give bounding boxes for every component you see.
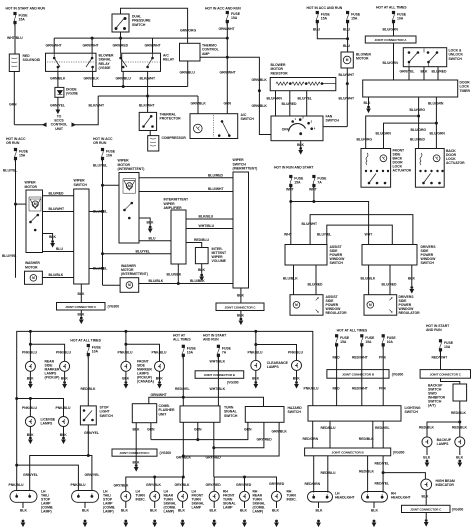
svg-text:RED/YEL: RED/YEL bbox=[375, 482, 390, 486]
A/C relay bbox=[122, 53, 161, 71]
wire BLU/GRN timer pin bbox=[435, 97, 437, 149]
svg-text:BLK: BLK bbox=[456, 456, 463, 460]
svg-text:RED/GRN: RED/GRN bbox=[305, 482, 321, 486]
wire BLK lock switch pin bbox=[423, 67, 425, 80]
svg-text:BLU/WHT: BLU/WHT bbox=[339, 73, 355, 77]
svg-text:WHT/BLK: WHT/BLK bbox=[210, 360, 226, 364]
RH headlight bbox=[362, 492, 388, 503]
svg-text:HOT AT ALL TIMES: HOT AT ALL TIMES bbox=[337, 328, 368, 332]
license lamp left bbox=[25, 417, 35, 427]
backup lamp right bbox=[455, 437, 465, 447]
wire RED/BLK stop feed bbox=[87, 355, 89, 406]
joint connector C (wiper) bbox=[57, 303, 106, 311]
wire WHT/BLK turn feed bbox=[217, 355, 219, 406]
svg-text:BLU/ORG: BLU/ORG bbox=[411, 128, 427, 132]
fuse 7A (window 2) bbox=[313, 175, 315, 177]
svg-text:MOTOR: MOTOR bbox=[25, 185, 38, 189]
svg-text:BLK: BLK bbox=[316, 509, 323, 513]
svg-text:PNK/BLU: PNK/BLU bbox=[56, 406, 71, 410]
svg-text:JOINT CONNECTOR C: JOINT CONNECTOR C bbox=[430, 373, 462, 377]
wire PNK/BLU to tail lamps bbox=[17, 465, 79, 490]
wire BLU/BLK washer int to int switch bbox=[139, 283, 233, 285]
wire RED/YEL to RH headlight and high beam bbox=[382, 456, 384, 493]
svg-text:LOCK &UNLOCKSWITCH: LOCK &UNLOCKSWITCH bbox=[449, 49, 464, 61]
wire dual pressure bottom pin bbox=[120, 32, 122, 38]
wire GRN/BLU A/C relay pin bbox=[122, 71, 124, 86]
joint connector B (turn) bbox=[195, 371, 244, 379]
wire GRN/BLU thermo amp pin bbox=[187, 61, 189, 87]
wire BLU/YEL wiper feed bbox=[15, 159, 17, 278]
svg-text:RED/BLK: RED/BLK bbox=[419, 426, 434, 430]
svg-text:BLU/GRN: BLU/GRN bbox=[376, 132, 392, 136]
wire GRN/BLK hazard link bbox=[183, 422, 279, 456]
wire GRN/WHT drop 2 bbox=[91, 38, 93, 53]
svg-text:GRN/WHT: GRN/WHT bbox=[151, 393, 168, 397]
wire GRY/RED lamp bus right bbox=[214, 477, 276, 491]
svg-text:(VG300: (VG300 bbox=[452, 508, 464, 512]
svg-text:BLU/BLK: BLU/BLK bbox=[283, 277, 298, 281]
svg-text:PNK/BLU: PNK/BLU bbox=[71, 483, 86, 487]
wire BLK LH front turn ground bbox=[182, 501, 184, 508]
turn signal switch bbox=[180, 406, 220, 422]
wire GRN/BLK branch right bbox=[227, 57, 271, 134]
svg-text:GRN: GRN bbox=[9, 103, 17, 107]
wire WHT fuse2 down to bus bbox=[313, 186, 315, 202]
front side back door lock actuator bbox=[361, 149, 391, 188]
wire BLU/WHT crossover bbox=[310, 215, 413, 245]
svg-text:SWITCH: SWITCH bbox=[74, 183, 88, 187]
wire RED/GRN lighting out 1 bbox=[312, 421, 314, 448]
svg-text:WIPER: WIPER bbox=[74, 179, 86, 183]
svg-text:GRN/YEL: GRN/YEL bbox=[84, 431, 99, 435]
wire RED/WHT fuse b down bbox=[361, 345, 363, 406]
svg-text:HOT IN RUN AND START: HOT IN RUN AND START bbox=[274, 166, 314, 170]
svg-text:M: M bbox=[34, 202, 37, 206]
wiper switch bbox=[74, 189, 89, 284]
svg-text:BLK: BLK bbox=[60, 433, 67, 437]
front side marker lamp right bbox=[155, 361, 165, 371]
svg-text:WHT/BLK: WHT/BLK bbox=[210, 387, 226, 391]
svg-text:BLK: BLK bbox=[252, 377, 259, 381]
svg-text:BLK: BLK bbox=[122, 377, 129, 381]
RH rear turn signal lamp bbox=[240, 491, 250, 501]
wire BLU int motor to amplifier bbox=[139, 240, 171, 242]
svg-text:GRN/WHT: GRN/WHT bbox=[219, 27, 236, 31]
svg-text:DOORLOCKTIMER: DOORLOCKTIMER bbox=[460, 81, 471, 93]
wire GRN/WHT drop 1 bbox=[53, 38, 55, 53]
svg-text:M: M bbox=[295, 303, 298, 307]
RH tail stop lamp (comb lamp) bbox=[72, 491, 99, 503]
wire GRN/YEL diode to ECCS bbox=[57, 97, 59, 110]
svg-text:BLU: BLU bbox=[343, 28, 350, 32]
wire GRN bus to switches bbox=[151, 422, 248, 439]
wire RED/YEL flasher feed bbox=[182, 355, 184, 406]
svg-text:BLU/RED: BLU/RED bbox=[382, 282, 397, 286]
svg-text:BLU: BLU bbox=[313, 28, 320, 32]
wire hazard feed from RED/YEL bbox=[183, 397, 263, 406]
wire RED fuse a down bbox=[336, 345, 338, 406]
svg-text:RED/GRN: RED/GRN bbox=[303, 437, 319, 441]
wire BLK rear markers ground bbox=[29, 371, 31, 381]
svg-text:BLK: BLK bbox=[198, 268, 205, 272]
svg-text:GRN/WHT: GRN/WHT bbox=[220, 71, 237, 75]
rear side marker lamp right bbox=[60, 361, 70, 371]
svg-text:BLK/WHT: BLK/WHT bbox=[139, 104, 155, 108]
svg-text:RED/WHT: RED/WHT bbox=[432, 356, 449, 360]
wire GRN/BLK relay pin 2 bbox=[93, 71, 188, 86]
svg-text:BLK: BLK bbox=[240, 509, 247, 513]
blower motor bbox=[341, 52, 353, 68]
svg-text:BLU/BLK: BLU/BLK bbox=[149, 279, 164, 283]
wire BLU wiper motor to switch bbox=[43, 251, 74, 253]
svg-text:BLK: BLK bbox=[156, 377, 163, 381]
wire rear marker pair feed bbox=[29, 331, 31, 344]
wire drop LH rear turn bbox=[154, 477, 156, 491]
wire GRN/BLK relay pin to diode bbox=[57, 71, 59, 87]
svg-text:WHT/BLU: WHT/BLU bbox=[199, 224, 215, 228]
svg-text:PNK/BLU: PNK/BLU bbox=[22, 406, 37, 410]
svg-text:BLK: BLK bbox=[82, 509, 89, 513]
wire BLU/BLK drivers switch to regulator bbox=[368, 265, 370, 295]
fuse 7A (turn) bbox=[217, 345, 219, 347]
svg-text:BLU/RED: BLU/RED bbox=[308, 282, 323, 286]
svg-text:(VG300: (VG300 bbox=[227, 381, 239, 385]
svg-text:OFF: OFF bbox=[282, 128, 289, 132]
svg-text:BLK: BLK bbox=[133, 460, 140, 464]
wire BLK/BLU amplifier to int switch bbox=[186, 218, 233, 220]
svg-text:HOT IN ACC AND RUN: HOT IN ACC AND RUN bbox=[307, 6, 343, 10]
svg-text:BLU/GRN: BLU/GRN bbox=[428, 102, 444, 106]
svg-text:BLK/BLU: BLK/BLU bbox=[199, 215, 214, 219]
hazard switch bbox=[245, 407, 284, 423]
svg-text:BLU/WHT: BLU/WHT bbox=[302, 222, 318, 226]
svg-text:PNK/BLU: PNK/BLU bbox=[9, 483, 24, 487]
stop light switch bbox=[80, 406, 96, 425]
back door lock actuator bbox=[415, 149, 444, 188]
svg-text:RED/WHT: RED/WHT bbox=[352, 356, 369, 360]
wire BLU/RED assist switch to regulator bbox=[315, 265, 317, 295]
svg-text:M: M bbox=[128, 184, 131, 188]
wire GRN/YEL stop switch down bbox=[87, 425, 89, 456]
svg-text:BLK: BLK bbox=[422, 495, 429, 499]
lock and unlock switch bbox=[403, 48, 446, 67]
svg-text:RED/YEL: RED/YEL bbox=[175, 387, 190, 391]
svg-text:BLK: BLK bbox=[78, 313, 85, 317]
wire WHT/BLU amplifier to int switch bbox=[186, 228, 233, 230]
wire RED/GRN to LH headlight bbox=[313, 456, 315, 493]
svg-text:PNK/BLU: PNK/BLU bbox=[22, 351, 37, 355]
wire GRY/BLK turn switch output bbox=[182, 422, 184, 477]
wire BLK fan switch ground bbox=[300, 141, 302, 148]
joint connector C 2 bbox=[216, 303, 264, 311]
wire main bus (hot in acc) bbox=[54, 37, 227, 39]
svg-text:GRN/BLK: GRN/BLK bbox=[252, 78, 268, 82]
svg-text:RED/BLU: RED/BLU bbox=[321, 426, 336, 430]
wire BLK RH headlight ground bbox=[373, 502, 375, 508]
wiper motor bbox=[26, 190, 43, 253]
svg-text:RED/BLK: RED/BLK bbox=[81, 387, 96, 391]
svg-text:HOT AT ALL TIMES: HOT AT ALL TIMES bbox=[70, 339, 101, 343]
wire BLU/WHT blower to resistor/fan bbox=[346, 68, 348, 127]
svg-text:BLU/BLK: BLU/BLK bbox=[167, 273, 182, 277]
high beam indicator bbox=[421, 479, 432, 490]
svg-text:JOINT CONNECTOR A: JOINT CONNECTOR A bbox=[375, 38, 408, 42]
wire drop RH rear turn bbox=[244, 477, 246, 491]
diode (VG30E) bbox=[55, 87, 64, 97]
intermittent wiper volume bbox=[195, 248, 208, 264]
svg-text:PNK/BLU: PNK/BLU bbox=[56, 351, 71, 355]
thermo control amp bbox=[180, 43, 201, 61]
clearance lamp left bbox=[251, 360, 261, 370]
wire GRN/ORG dual pressure to thermo amp bbox=[121, 8, 188, 43]
svg-text:BLK: BLK bbox=[210, 509, 217, 513]
wire BLK RH rear turn ground bbox=[244, 501, 246, 508]
joint connector B (lighting) bbox=[327, 370, 389, 379]
svg-text:BLK: BLK bbox=[121, 509, 128, 513]
svg-text:BLU/GRN: BLU/GRN bbox=[430, 132, 446, 136]
svg-text:BLU/WHT: BLU/WHT bbox=[49, 207, 65, 211]
svg-text:RED/BLK: RED/BLK bbox=[359, 470, 374, 474]
svg-text:BLK: BLK bbox=[371, 509, 378, 513]
joint connector C (turn area) bbox=[112, 449, 157, 456]
wire BLU/YEL into int washer bbox=[103, 284, 121, 286]
svg-text:RED/BLU: RED/BLU bbox=[321, 471, 336, 475]
clearance lamp right bbox=[292, 360, 302, 370]
svg-text:BLK: BLK bbox=[421, 70, 428, 74]
wire BLK RH tail ground bbox=[84, 502, 86, 508]
svg-text:RED/BLK: RED/BLK bbox=[359, 437, 374, 441]
wire BLK LH rear turn ground bbox=[154, 501, 156, 508]
wire GRN/WHT drop 3 bbox=[152, 38, 154, 53]
rear side marker lamp left bbox=[25, 361, 35, 371]
svg-text:HAZARDSWITCH: HAZARDSWITCH bbox=[288, 406, 303, 414]
LH front turn signal lamp bbox=[178, 491, 188, 501]
svg-text:GRN/BLK: GRN/BLK bbox=[84, 77, 100, 81]
door lock timer bbox=[363, 80, 458, 97]
wire RED/BLU to LH headlight bbox=[327, 456, 329, 493]
wire BLK RH front turn ground bbox=[213, 501, 215, 508]
wire BLK LH headlight ground bbox=[318, 502, 320, 508]
svg-text:M: M bbox=[32, 276, 35, 280]
wire BLK high beam to joint connector C bbox=[425, 490, 427, 505]
wire WHT bus to drivers switch bbox=[291, 202, 369, 245]
wire BLU/GRN branch to front actuator bbox=[384, 123, 437, 148]
svg-text:GRY/RED: GRY/RED bbox=[206, 483, 222, 487]
wire BLK backup lamps ground bbox=[426, 447, 428, 455]
wire BLK int motor ground bbox=[139, 218, 150, 226]
backup lamp left bbox=[422, 437, 432, 447]
fuse 10A (flasher) bbox=[182, 345, 184, 347]
svg-text:RED/WHT: RED/WHT bbox=[352, 386, 369, 390]
wire RED/YEL lighting out 4 bbox=[382, 421, 384, 448]
wire BLU/GRN fuse to connector A bbox=[393, 22, 395, 37]
wire BLU/GRN resistor pin bbox=[275, 91, 277, 116]
wire BLU/BLK washer to switch bbox=[42, 277, 73, 279]
fuse 10A (lighting c) bbox=[382, 335, 384, 337]
svg-text:GRN/YEL: GRN/YEL bbox=[85, 473, 100, 477]
wire BLU/RED resistor pin bbox=[289, 91, 291, 116]
fuse 15A b bbox=[347, 11, 349, 13]
wire BLU/RED drivers switch to regulator bbox=[389, 265, 391, 295]
wire BLK flasher ground bbox=[135, 423, 137, 464]
svg-text:GRN/BLK: GRN/BLK bbox=[252, 104, 268, 108]
fan switch bbox=[271, 116, 323, 141]
wire GRN flasher output bbox=[150, 423, 152, 440]
svg-text:GRN/RED: GRN/RED bbox=[113, 44, 129, 48]
svg-text:JOINT CONNECTOR C: JOINT CONNECTOR C bbox=[224, 305, 256, 309]
wire PNK/BLU main bus bbox=[17, 331, 313, 465]
wire GRN from solenoid to ECCS bbox=[13, 72, 15, 125]
svg-text:GRN/BLU: GRN/BLU bbox=[180, 71, 196, 75]
svg-text:BLK: BLK bbox=[297, 143, 304, 147]
svg-text:BLK: BLK bbox=[408, 277, 415, 281]
wire BLU/WHT int motor to int switch bbox=[139, 191, 233, 193]
svg-text:BLK: BLK bbox=[27, 377, 34, 381]
svg-text:JOINT CONNECTOR C: JOINT CONNECTOR C bbox=[120, 451, 151, 455]
svg-text:BLU/GRN: BLU/GRN bbox=[383, 28, 399, 32]
wire RED/BLK backup switch down bbox=[459, 401, 461, 422]
svg-text:BLK: BLK bbox=[20, 509, 27, 513]
wire BLK volume ground bbox=[201, 264, 203, 274]
svg-text:BLU/BLK: BLU/BLK bbox=[361, 277, 376, 281]
wire BLK wiper switch to joint connector C bbox=[80, 284, 82, 303]
svg-text:HOT IN ACC AND RUN: HOT IN ACC AND RUN bbox=[205, 7, 241, 11]
svg-text:BLU/RED: BLU/RED bbox=[410, 138, 425, 142]
svg-text:GRY/RED: GRY/RED bbox=[257, 438, 273, 442]
svg-text:BLU/BLK: BLU/BLK bbox=[49, 273, 64, 277]
wire thermal protector to compressor bbox=[149, 131, 151, 136]
joint connector B 2 bbox=[305, 448, 391, 456]
fuse 10A (int wiper) bbox=[101, 148, 103, 150]
svg-text:GRY/RED: GRY/RED bbox=[236, 483, 252, 487]
wire BLK/WHT A/C relay pin bbox=[147, 71, 149, 112]
wire BLK/WHT bus2 to ECCS bbox=[75, 96, 98, 125]
svg-text:PNK/BLU: PNK/BLU bbox=[248, 351, 263, 355]
wire BLK int switch to joint connector C2 bbox=[240, 288, 242, 303]
RH turn indicator bbox=[272, 491, 282, 501]
svg-text:GRY/RED: GRY/RED bbox=[269, 482, 285, 486]
blower motor resistor bbox=[270, 78, 336, 91]
wire RED/BLK to RH headlight bbox=[367, 456, 369, 493]
svg-text:PNK/BLU: PNK/BLU bbox=[118, 351, 133, 355]
svg-text:GRN/WHT: GRN/WHT bbox=[145, 44, 162, 48]
svg-text:WHT: WHT bbox=[365, 233, 374, 237]
fuse 15A (wiper) bbox=[14, 148, 16, 150]
wire BLU/GRN connector A to timer bbox=[393, 43, 395, 80]
joint connector A bbox=[365, 36, 416, 43]
wire BLU/YEL bus to amplifier bbox=[103, 253, 172, 255]
svg-text:RED: RED bbox=[333, 386, 341, 390]
svg-text:M: M bbox=[369, 303, 372, 307]
svg-text:BLU/YEL: BLU/YEL bbox=[298, 97, 312, 101]
svg-text:BLK: BLK bbox=[272, 509, 279, 513]
svg-text:BLK: BLK bbox=[78, 292, 85, 296]
svg-text:JOINT CONNECTOR C: JOINT CONNECTOR C bbox=[65, 305, 97, 309]
blower signal relay bbox=[46, 53, 97, 71]
svg-text:HOT IN START AND RUN: HOT IN START AND RUN bbox=[6, 7, 46, 11]
fuse 15A (acc/run) bbox=[226, 11, 228, 13]
wire GRN/YEL lock switch pin bbox=[408, 67, 410, 80]
svg-text:BLU/YEL: BLU/YEL bbox=[136, 249, 150, 253]
svg-text:PNK/BLU: PNK/BLU bbox=[152, 351, 167, 355]
svg-text:WHT: WHT bbox=[284, 233, 293, 237]
svg-text:RED/BLU: RED/BLU bbox=[194, 238, 209, 242]
svg-text:BLU: BLU bbox=[343, 44, 350, 48]
wire GRY/BLK lamp bus left bbox=[126, 477, 183, 491]
wire GRY/RED turn switch output bbox=[213, 422, 215, 477]
wire BLU/BLK assist switch to regulator bbox=[293, 265, 295, 295]
wire wiper motor left pin bbox=[16, 203, 27, 205]
comb flasher unit bbox=[132, 404, 156, 423]
A/C switch bbox=[190, 114, 238, 139]
wire BLU/WHT wiper motor to switch bbox=[43, 211, 74, 213]
drivers side power window switch bbox=[362, 245, 417, 266]
wire BLU/RED lock switch pin bbox=[437, 67, 439, 80]
svg-text:BLK: BLK bbox=[133, 428, 140, 432]
wire BLK wiper motor ground bbox=[43, 234, 53, 241]
washer motor bbox=[25, 271, 43, 284]
joint connector C (high beam) bbox=[402, 505, 451, 512]
svg-text:RED/BLK: RED/BLK bbox=[452, 426, 467, 430]
svg-text:BLU/RED: BLU/RED bbox=[49, 192, 64, 196]
wiper switch intermittent bbox=[233, 172, 249, 288]
wire wiper switch right stubs bbox=[89, 211, 103, 213]
wire GRN/RED drop bbox=[120, 38, 122, 53]
svg-text:BLU/ORG: BLU/ORG bbox=[357, 138, 373, 142]
svg-text:PNK: PNK bbox=[379, 356, 387, 360]
wire BLU/BLK amplifier bottom bbox=[177, 264, 179, 284]
LH rear turn signal lamp bbox=[150, 491, 160, 501]
compressor bbox=[148, 136, 159, 151]
svg-text:GRN/WHT: GRN/WHT bbox=[83, 44, 100, 48]
svg-text:BLK: BLK bbox=[364, 101, 371, 105]
wire RED/YEL to high beam indicator bbox=[383, 473, 425, 480]
svg-text:BLK: BLK bbox=[237, 314, 244, 318]
svg-text:BLU: BLU bbox=[56, 247, 63, 251]
wire GRN/WHT flasher link bbox=[149, 397, 184, 404]
wire BLU/RED wiper motor to switch bbox=[43, 195, 74, 197]
svg-text:GRN/ORG: GRN/ORG bbox=[180, 29, 196, 33]
wire BLU/RED int motor to int switch bbox=[139, 177, 233, 179]
svg-text:M: M bbox=[346, 58, 349, 62]
svg-text:BLK: BLK bbox=[178, 509, 185, 513]
wire GRY/RED hazard link bbox=[214, 422, 264, 447]
fuse 10A (backup) bbox=[439, 340, 441, 342]
wire BLU/YEL resistor pin bbox=[306, 91, 308, 116]
wire BLK front markers ground bbox=[125, 371, 127, 381]
wire BLK LH turn indic ground bbox=[125, 501, 127, 508]
wire clearance pair feed bbox=[255, 331, 257, 360]
svg-text:GRY/BLK: GRY/BLK bbox=[114, 484, 130, 488]
svg-text:HOT AT ALL TIMES: HOT AT ALL TIMES bbox=[376, 6, 407, 10]
wire WHT fuse1 down bbox=[290, 186, 292, 245]
svg-text:WHT: WHT bbox=[309, 188, 318, 192]
svg-text:COMPRESSOR: COMPRESSOR bbox=[162, 136, 187, 140]
svg-text:BLU/WHT: BLU/WHT bbox=[208, 187, 224, 191]
wire BLK timer ground bbox=[368, 97, 370, 106]
svg-text:WHT/BLU: WHT/BLU bbox=[7, 36, 23, 40]
fuse 15A (lighting b) bbox=[361, 335, 363, 337]
svg-text:M: M bbox=[128, 283, 131, 287]
wire GRN/WHT from fuse down to A/C switch bbox=[226, 22, 228, 114]
svg-text:BLU: BLU bbox=[149, 236, 156, 240]
svg-text:BLU/BLK: BLU/BLK bbox=[190, 279, 205, 283]
wire BLU/YEL crossover bbox=[327, 225, 393, 244]
svg-text:PNK/BLU: PNK/BLU bbox=[288, 351, 303, 355]
assist side power window switch bbox=[285, 245, 327, 266]
svg-text:GRN/BLK: GRN/BLK bbox=[191, 102, 207, 106]
front side marker lamp left bbox=[121, 361, 131, 371]
